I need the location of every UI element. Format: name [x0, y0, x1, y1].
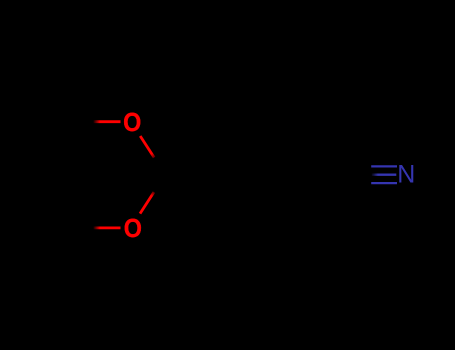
svg-text:N: N — [397, 161, 415, 189]
nitrile triple bond: bottom blue line — [371, 182, 397, 184]
svg-text:O: O — [123, 107, 141, 137]
nitrile triple bond: middle blue line (C9-N axis, fades from black half) — [371, 174, 396, 176]
ring bond C5-C4 (black, invisible on bg) — [36, 175, 71, 228]
chain bond C8-C9 (black, invisible) — [287, 174, 346, 177]
bond O3-C2 red half (diagonal from bottom O) — [140, 192, 154, 214]
bond C4-O3 black half — [71, 226, 94, 229]
ring bond C5-C6 (black, invisible on bg) — [36, 122, 71, 175]
bond C6-O1 red half (wire to top O) — [94, 120, 121, 123]
chain bond C2-C7 (black, invisible) — [167, 145, 227, 175]
bond C4-O3 red half (wire to bottom O) — [94, 226, 121, 229]
bond O3-C2 black half — [154, 175, 167, 192]
nitrile triple bond: top blue line — [371, 165, 397, 167]
bond O1-C2 black half — [154, 158, 167, 175]
bond C6-O1 black half — [71, 120, 94, 123]
bond O1-C2 red half (diagonal from top O) — [140, 136, 154, 158]
chain bond C7-C8 (black, invisible) — [227, 145, 287, 175]
svg-text:O: O — [124, 213, 142, 243]
